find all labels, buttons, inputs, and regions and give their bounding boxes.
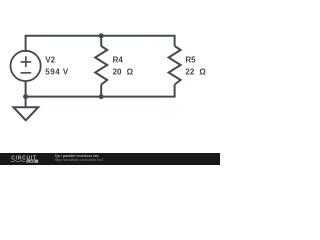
wire R4 bottom stub [100,85,102,97]
CircuitLab logo LAB box [27,160,39,163]
svg-text:http://circuitlab.com/c/bek7m3: http://circuitlab.com/c/bek7m3 [55,158,104,162]
svg-text:22: 22 [185,68,194,77]
resistor R5 [169,46,181,85]
junction dot ground (V2/bottom rail) [23,94,28,99]
junction dot bottom (R4/bottom rail) [99,94,104,99]
wire V2 top stub [25,36,27,52]
wire V2 bottom stub [25,81,27,97]
svg-text:R4: R4 [113,56,124,65]
ground symbol [13,107,38,120]
wire R5 bottom stub [174,85,176,97]
svg-text:Ω: Ω [199,68,206,77]
wire bottom rail [25,96,176,98]
resistor R4 [95,46,107,85]
svg-text:594 V: 594 V [45,68,69,77]
wire top rail [25,35,176,37]
wire R4 top stub [100,36,102,46]
svg-text:Ω: Ω [127,68,134,77]
V2 minus sign [21,72,32,74]
svg-text:LAB: LAB [28,159,36,163]
ground stem [25,97,27,108]
voltage source V2 [11,51,41,81]
svg-text:V2: V2 [45,56,55,65]
wire R5 top stub [174,36,176,46]
svg-text:20: 20 [113,68,122,77]
V2 plus sign [21,56,32,67]
CircuitLab logo waveform [11,160,25,162]
watermark bar [0,153,220,165]
svg-text:R5: R5 [185,56,196,65]
junction dot top (R4/top rail) [99,33,104,38]
